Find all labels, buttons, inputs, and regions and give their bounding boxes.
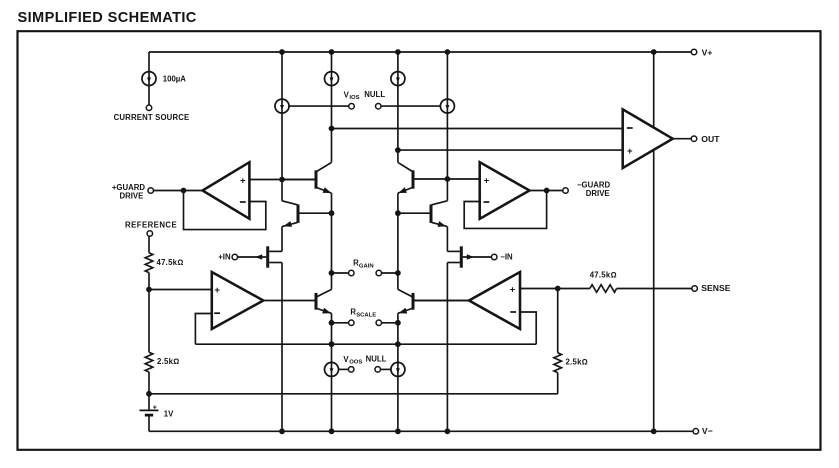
wire: A4 output to Q5 base <box>263 300 314 302</box>
current source I7 (VOOS null right) <box>391 362 405 376</box>
wire: bottom reference line <box>149 393 558 395</box>
svg-text:CURRENT SOURCE: CURRENT SOURCE <box>114 113 190 122</box>
node scale line left <box>329 341 335 347</box>
wire: right outer column x=447 upper <box>446 52 448 99</box>
wire: I7 down to V- rail <box>397 376 399 431</box>
terminal CURRENT SOURCE <box>146 105 152 111</box>
wire: RGAIN left lead <box>332 272 349 274</box>
svg-text:47.5kΩ: 47.5kΩ <box>590 271 617 280</box>
terminal V+ <box>691 49 697 55</box>
terminal RGAIN left <box>349 270 355 276</box>
terminal VOOS NULL left <box>348 367 354 373</box>
svg-text:DRIVE: DRIVE <box>586 189 610 198</box>
node Q3 base / A2 input <box>445 176 451 182</box>
node RGAIN left <box>329 270 335 276</box>
node on V+ rail at x=397.9 <box>395 49 401 55</box>
svg-text:+: + <box>153 405 157 412</box>
terminal V- <box>693 429 699 435</box>
current source I3 <box>325 72 339 86</box>
wire: reference lead <box>148 237 150 253</box>
wire: inner-right column x=397.9 upper <box>397 52 399 72</box>
svg-text:NULL: NULL <box>366 354 387 363</box>
wire: A5 + input to sense node <box>520 288 558 290</box>
op-amp A5 lower-right <box>469 272 520 329</box>
op-amp A4 lower-left <box>212 272 263 329</box>
wire: Q2 emitter down to J1 drain <box>281 227 283 252</box>
terminal REFERENCE <box>147 231 153 237</box>
svg-text:DRIVE: DRIVE <box>119 192 143 201</box>
wire: supply column x=653.7 <box>653 52 655 431</box>
node RSCALE left <box>329 320 335 326</box>
wire: inner-left column x=331.5 upper <box>331 52 333 72</box>
wire: RSCALE right lead <box>382 322 398 324</box>
wire: Q6 emitter to RSCALE node <box>397 313 399 362</box>
svg-text:OOS: OOS <box>349 360 362 366</box>
svg-text:+: + <box>240 175 246 186</box>
node at x=331.5 y=128.5 <box>329 126 335 132</box>
node scale line right <box>395 341 401 347</box>
node on V+ rail at x=653.7 <box>651 49 657 55</box>
wire: A2 output <box>530 190 563 192</box>
svg-text:IOS: IOS <box>349 95 359 101</box>
battery 1V <box>140 405 175 419</box>
jfet J1 (+IN input) <box>238 246 282 267</box>
wire: R1 to R2 <box>148 273 150 353</box>
svg-text:+: + <box>214 285 220 296</box>
wire: A4 + input <box>149 289 212 291</box>
svg-text:+: + <box>484 175 490 186</box>
wire: left outer column x=282 upper <box>281 52 283 99</box>
svg-text:2.5kΩ: 2.5kΩ <box>566 357 588 366</box>
terminal VIOS NULL right <box>376 103 382 109</box>
terminal SENSE <box>692 286 698 292</box>
op-amp A1 +guard driver <box>203 162 250 219</box>
wire: A4 - input stub <box>195 314 211 345</box>
svg-text:V+: V+ <box>702 47 713 57</box>
wire: x=282 from I2 to node <box>281 113 283 201</box>
terminal VIOS NULL left <box>349 103 355 109</box>
terminal +GUARD DRIVE <box>148 188 154 194</box>
resistor R4 2.5k (sense divider) <box>557 289 559 353</box>
terminal -IN <box>491 254 497 260</box>
svg-text:SCALE: SCALE <box>356 312 376 318</box>
jfet J2 (-IN input) <box>447 246 491 267</box>
transistor Q3 <box>398 162 480 193</box>
wire: I6 down to V- rail <box>331 376 333 431</box>
wire: A1 feedback loop <box>184 191 266 230</box>
node A2 output <box>544 188 550 194</box>
current source I1 100uA <box>142 52 156 105</box>
transistor Q2 <box>282 201 332 227</box>
node RSCALE right <box>395 320 401 326</box>
wire: scale feedback line <box>195 343 536 345</box>
wire: battery to V- rail <box>148 415 150 431</box>
wire: x=447 from I5 to node <box>446 113 448 201</box>
node Q1 emitter / Q2 base <box>329 210 335 216</box>
transistor Q4 <box>398 201 448 227</box>
wire: RGAIN right lead <box>382 272 398 274</box>
svg-text:OUT: OUT <box>701 134 720 144</box>
terminal VOOS NULL right <box>375 367 381 373</box>
resistor R3 47.5k (sense) <box>558 288 590 290</box>
node battery top <box>146 391 152 397</box>
wire: I6 to terminal <box>339 368 349 370</box>
node sense divider <box>555 286 561 292</box>
wire: A5 output to Q6 base <box>414 300 469 302</box>
V+ rail <box>149 51 691 53</box>
wire: x=397.9 down to Q3 collector <box>397 86 399 163</box>
node A1 output <box>181 188 187 194</box>
current source I6 (VOOS null left) <box>325 362 339 376</box>
node on V+ rail at x=331.5 <box>329 49 335 55</box>
wire: Q5 emitter to RSCALE node <box>331 313 333 362</box>
wire: A1 noninverting input to Q1 base <box>249 179 314 181</box>
svg-text:47.5kΩ: 47.5kΩ <box>157 258 184 267</box>
wire: x=447 lower run to V- rail <box>446 263 448 432</box>
transistor Q5 <box>316 289 332 313</box>
terminal OUT <box>691 136 697 142</box>
wire: R4 to bottom reference line <box>557 373 559 394</box>
current source I5 <box>440 99 454 113</box>
node on V- rail at x=397.9 <box>395 428 401 434</box>
terminal RSCALE right <box>376 320 382 326</box>
node at x=397.9 y=150.1 <box>395 147 401 153</box>
wire: Q1 emitter down x=331.5 <box>331 193 333 289</box>
node reference divider <box>146 287 152 293</box>
svg-text:1V: 1V <box>164 410 174 419</box>
op-amp A2 -guard driver <box>480 162 530 219</box>
op-amp A3 output amplifier <box>623 109 673 168</box>
wire: Q3 emitter down x=397.9 <box>397 193 399 289</box>
node on V+ rail at x=447 <box>445 49 451 55</box>
wire: to output amp non-inverting input <box>398 149 623 151</box>
resistor R1 47.5k <box>145 253 153 273</box>
svg-text:+: + <box>510 284 516 295</box>
node RGAIN right <box>395 270 401 276</box>
V- rail <box>149 430 693 432</box>
node on V- rail at x=331.5 <box>329 428 335 434</box>
svg-text:REFERENCE: REFERENCE <box>125 221 177 230</box>
node A1 input / x=282 <box>279 177 285 183</box>
node Q3 emitter / Q4 base <box>395 210 401 216</box>
wire: A3 output <box>673 138 691 140</box>
terminal +IN <box>232 254 238 260</box>
svg-text:SIMPLIFIED SCHEMATIC: SIMPLIFIED SCHEMATIC <box>18 10 197 26</box>
wire: terminal to I7 <box>381 368 391 370</box>
terminal -GUARD DRIVE <box>563 188 569 194</box>
wire: VIOS null left lead <box>289 105 348 107</box>
svg-text:+: + <box>627 146 633 157</box>
wire: VIOS null right lead <box>381 105 440 107</box>
svg-text:NULL: NULL <box>364 90 385 99</box>
wire: A1 output <box>154 190 203 192</box>
wire: A2 feedback loop <box>464 191 546 229</box>
svg-text:SENSE: SENSE <box>701 283 730 293</box>
svg-text:+IN: +IN <box>218 253 231 262</box>
resistor R2 2.5k <box>145 352 153 372</box>
wire: x=282 lower run to V- rail <box>281 263 283 432</box>
current source I2 <box>275 99 289 113</box>
wire: Q4 emitter down to J2 drain <box>446 227 448 252</box>
svg-text:V−: V− <box>702 426 713 436</box>
node on V- rail at x=447 <box>445 428 451 434</box>
node on V+ rail at x=282 <box>279 49 285 55</box>
wire: R3 to SENSE terminal <box>617 288 692 290</box>
wire: x=331.5 down to Q1 collector <box>331 86 333 163</box>
terminal RSCALE left <box>349 320 355 326</box>
svg-text:2.5kΩ: 2.5kΩ <box>157 357 179 366</box>
node on V- rail at x=282 <box>279 428 285 434</box>
wire: A5 - input stub <box>520 312 536 344</box>
current source I4 <box>391 72 405 86</box>
transistor Q1 <box>282 162 332 193</box>
node on V- rail at x=653.7 <box>651 428 657 434</box>
transistor Q6 <box>398 289 468 313</box>
svg-text:−IN: −IN <box>500 253 513 262</box>
wire: R2 to battery <box>148 372 150 410</box>
terminal RGAIN right <box>376 270 382 276</box>
svg-text:100µA: 100µA <box>163 74 187 83</box>
wire: to output amp inverting input <box>332 128 623 130</box>
wire: RSCALE left lead <box>332 322 349 324</box>
svg-text:GAIN: GAIN <box>359 263 374 269</box>
